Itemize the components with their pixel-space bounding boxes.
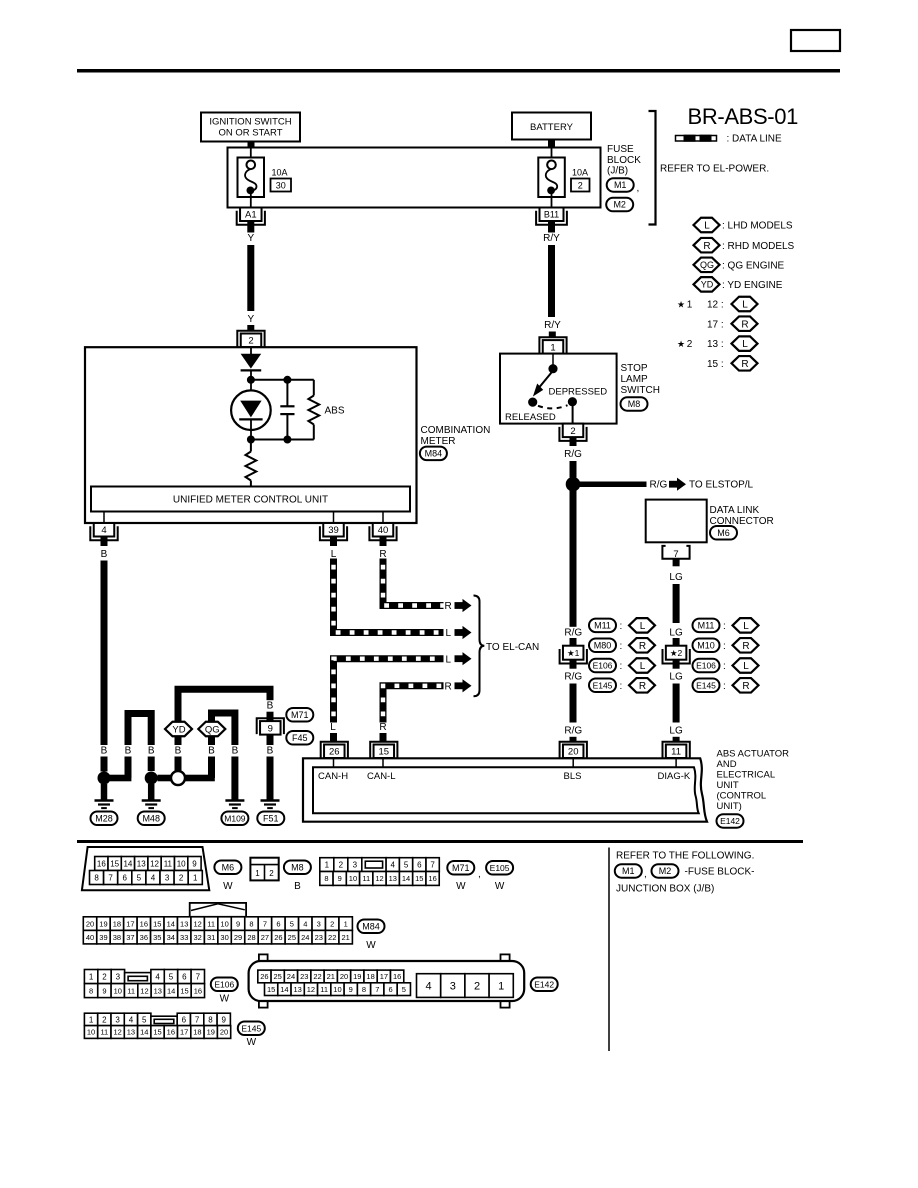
connector star2 <box>663 649 690 664</box>
svg-text:18: 18 <box>366 972 374 981</box>
connector E142 label <box>717 814 744 828</box>
svg-text:14: 14 <box>402 874 410 883</box>
svg-text:12: 12 <box>113 1028 121 1037</box>
ground wire M28 <box>101 784 108 800</box>
svg-text:1: 1 <box>498 981 504 993</box>
data line CAN-H from ABS pin 26 <box>334 659 444 723</box>
svg-text:35: 35 <box>153 933 161 942</box>
connector M8 pinout <box>250 858 278 881</box>
svg-text:9: 9 <box>268 723 273 734</box>
svg-text:LG: LG <box>669 572 683 583</box>
svg-text:17 :: 17 : <box>707 319 724 330</box>
wire R/G lower <box>570 684 577 723</box>
svg-text:24: 24 <box>301 933 309 942</box>
wire label B above junction <box>100 745 108 757</box>
svg-text:AND: AND <box>717 759 737 770</box>
svg-text:: RHD MODELS: : RHD MODELS <box>722 241 795 252</box>
node dot bottom <box>247 436 255 444</box>
ground M48 <box>142 799 161 802</box>
svg-text:6: 6 <box>182 972 187 981</box>
svg-text:19: 19 <box>353 972 361 981</box>
svg-text:METER: METER <box>421 436 456 447</box>
bottom rule <box>77 840 803 843</box>
svg-text:17: 17 <box>126 919 134 928</box>
svg-text:1: 1 <box>550 342 555 353</box>
combination meter box <box>85 347 417 523</box>
svg-text:L: L <box>743 661 749 672</box>
svg-text:1: 1 <box>325 860 330 869</box>
svg-text::: : <box>620 641 623 652</box>
svg-text:9: 9 <box>349 985 353 994</box>
svg-text:1: 1 <box>193 873 198 882</box>
wire label B loop right <box>147 745 155 757</box>
wire B from meter pin4 <box>101 561 108 772</box>
svg-text:10A: 10A <box>572 168 588 178</box>
junction dot M48 <box>145 772 158 785</box>
svg-text:R: R <box>741 359 748 370</box>
svg-text:8: 8 <box>362 985 366 994</box>
svg-text:B: B <box>267 746 274 757</box>
ABS actuator inner box <box>313 767 699 813</box>
svg-text:15: 15 <box>180 986 188 995</box>
arrow L row3 <box>446 652 472 665</box>
svg-text:UNIFIED METER CONTROL UNIT: UNIFIED METER CONTROL UNIT <box>173 495 328 506</box>
svg-text:R/Y: R/Y <box>543 233 560 244</box>
fuse2 number 2 <box>571 179 590 192</box>
engine option YD <box>165 722 192 737</box>
wire label B conn9 leg <box>266 700 274 712</box>
svg-text:BLOCK: BLOCK <box>607 155 641 166</box>
svg-text:M84: M84 <box>425 449 443 459</box>
svg-text:F45: F45 <box>292 733 308 743</box>
svg-text:BLS: BLS <box>564 771 582 782</box>
svg-text:12: 12 <box>140 986 148 995</box>
svg-text:SWITCH: SWITCH <box>621 385 660 396</box>
svg-text:: LHD MODELS: : LHD MODELS <box>722 221 793 232</box>
junction dot R/G <box>566 477 581 492</box>
svg-text:13: 13 <box>127 1028 135 1037</box>
svg-text:19: 19 <box>99 919 107 928</box>
svg-text:TO EL-CAN: TO EL-CAN <box>486 642 539 653</box>
meter pin line 4 <box>103 512 105 524</box>
svg-text:★1: ★1 <box>567 648 580 658</box>
wire stub above meter pin 2 <box>247 325 254 331</box>
svg-text:10: 10 <box>333 985 341 994</box>
wire battery to fuse block <box>548 140 555 149</box>
meter pin line 40 <box>382 512 384 524</box>
svg-text:E145: E145 <box>241 1023 261 1033</box>
svg-text:2: 2 <box>330 919 334 928</box>
svg-text:25: 25 <box>274 972 282 981</box>
switch contacts <box>528 354 577 424</box>
svg-text:15: 15 <box>153 919 161 928</box>
svg-text:2: 2 <box>179 873 184 882</box>
bottom section divider <box>608 848 610 1052</box>
svg-text:UNIT): UNIT) <box>717 801 742 812</box>
svg-text:34: 34 <box>167 933 175 942</box>
svg-text:W: W <box>220 993 230 1004</box>
svg-text:3: 3 <box>450 981 456 993</box>
wire Y <box>247 245 254 311</box>
connector M84 oval <box>358 920 385 951</box>
svg-text:M6: M6 <box>222 863 235 873</box>
svg-text:9: 9 <box>192 859 197 868</box>
svg-text:12: 12 <box>307 985 315 994</box>
svg-text:R: R <box>741 319 748 330</box>
combination meter label <box>421 425 491 447</box>
legend E145 R col2 <box>693 678 759 693</box>
legend LHD <box>694 218 793 233</box>
svg-text:25: 25 <box>288 933 296 942</box>
svg-text:15: 15 <box>153 1028 161 1037</box>
unified meter control unit box <box>91 487 410 512</box>
svg-text:20: 20 <box>220 1028 228 1037</box>
svg-text:7: 7 <box>195 1015 200 1024</box>
svg-text:: YD ENGINE: : YD ENGINE <box>722 280 783 291</box>
svg-text:LG: LG <box>669 627 683 638</box>
svg-text:M109: M109 <box>224 813 246 823</box>
connector E145 oval <box>238 1022 265 1049</box>
legend M11 L col2 <box>693 618 759 633</box>
svg-text:6: 6 <box>276 919 280 928</box>
svg-text:R: R <box>379 722 386 733</box>
svg-text:15: 15 <box>267 985 275 994</box>
svg-text:13: 13 <box>180 919 188 928</box>
wire stub below B11 <box>548 221 555 233</box>
svg-text:M10: M10 <box>697 641 715 651</box>
connector M84 <box>420 447 447 461</box>
svg-text:11: 11 <box>671 747 681 758</box>
wire ignition to fuse block <box>248 142 255 149</box>
wire LG upper <box>673 584 680 623</box>
svg-text:7: 7 <box>430 860 435 869</box>
svg-text:13 :: 13 : <box>707 339 724 350</box>
svg-text:16: 16 <box>393 972 401 981</box>
svg-text:W: W <box>223 881 233 892</box>
bracket for fuse block note <box>649 111 656 225</box>
svg-text:16: 16 <box>167 1028 175 1037</box>
svg-text:R/G: R/G <box>564 627 582 638</box>
svg-text:11: 11 <box>127 986 135 995</box>
ABS actuator label <box>717 749 790 813</box>
svg-text:B: B <box>101 746 108 757</box>
data line legend <box>676 134 783 145</box>
fuse block J/B box <box>228 148 601 208</box>
connector M48 <box>138 812 165 826</box>
svg-text:22: 22 <box>328 933 336 942</box>
svg-text:5: 5 <box>137 873 142 882</box>
svg-text:R: R <box>639 681 646 692</box>
connector M84 pinout <box>83 903 352 944</box>
data line CAN-L from ABS pin 15 <box>383 686 444 723</box>
legend star1 <box>677 297 758 312</box>
svg-text:B: B <box>148 746 155 757</box>
node dot cap top <box>283 376 291 384</box>
svg-text:28: 28 <box>247 933 255 942</box>
svg-text:30: 30 <box>220 933 228 942</box>
svg-text:14: 14 <box>123 859 132 868</box>
junction dot M28 <box>98 772 111 785</box>
svg-text:W: W <box>495 881 505 892</box>
svg-text:31: 31 <box>207 933 215 942</box>
wire label LG above star2 <box>669 627 683 639</box>
svg-text:32: 32 <box>193 933 201 942</box>
svg-text:30: 30 <box>276 181 286 191</box>
connector E145 pinout <box>84 1013 230 1038</box>
svg-text:18: 18 <box>113 919 121 928</box>
connector 2 switch <box>559 427 586 441</box>
svg-text:L: L <box>446 654 452 665</box>
connector 7 <box>662 546 689 560</box>
svg-text::: : <box>723 621 726 632</box>
connector M2 <box>606 198 633 212</box>
data line CAN-H from meter pin 39 <box>334 559 444 633</box>
svg-text:1: 1 <box>344 919 348 928</box>
wire YD loop <box>178 689 270 799</box>
svg-text:L: L <box>446 628 452 639</box>
connector 4 <box>90 526 117 540</box>
svg-text:1: 1 <box>89 972 94 981</box>
connector M109 <box>221 812 248 826</box>
svg-text:29: 29 <box>234 933 242 942</box>
wire label B QG left <box>207 745 215 757</box>
svg-text:FUSE: FUSE <box>607 144 634 155</box>
ground M109 <box>225 799 244 802</box>
svg-text:15: 15 <box>379 747 390 758</box>
svg-text:YD: YD <box>701 280 714 290</box>
svg-text:M2: M2 <box>659 866 672 876</box>
svg-text:(CONTROL: (CONTROL <box>717 791 767 802</box>
svg-text:: DATA LINE: : DATA LINE <box>727 134 783 145</box>
connector M28 <box>91 812 118 826</box>
ABS pin line 20 <box>572 758 574 768</box>
fuse 10A 2 <box>538 148 565 208</box>
svg-text:YD: YD <box>172 724 185 735</box>
svg-text:Y: Y <box>247 314 254 325</box>
svg-text:ON OR START: ON OR START <box>218 128 282 139</box>
svg-text:21: 21 <box>327 972 335 981</box>
wire loop B-B <box>128 714 151 779</box>
svg-text:7: 7 <box>263 919 267 928</box>
wire QG loop <box>212 713 235 800</box>
legend M10 R col2 <box>693 638 759 653</box>
svg-text:40: 40 <box>378 525 389 536</box>
svg-text:M48: M48 <box>142 814 160 824</box>
svg-text:2: 2 <box>339 860 344 869</box>
svg-text:3: 3 <box>353 860 358 869</box>
svg-text:RELEASED: RELEASED <box>505 412 556 423</box>
svg-text:11: 11 <box>320 985 328 994</box>
ground wire M48 <box>148 784 155 800</box>
svg-text:27: 27 <box>261 933 269 942</box>
svg-text:39: 39 <box>328 525 339 536</box>
svg-text:B: B <box>101 549 108 560</box>
connector E142 pinout <box>249 954 525 1007</box>
svg-text:8: 8 <box>89 986 93 995</box>
svg-text:JUNCTION BOX (J/B): JUNCTION BOX (J/B) <box>616 884 714 895</box>
svg-text:10: 10 <box>114 986 122 995</box>
wire LG lower <box>673 684 680 723</box>
svg-text:1: 1 <box>687 300 693 311</box>
brace TO EL-CAN <box>474 596 485 697</box>
svg-text:R/G: R/G <box>650 480 668 491</box>
wire R/G upper <box>570 461 577 478</box>
svg-text:LG: LG <box>669 672 683 683</box>
wire R/Y <box>548 245 555 317</box>
legend YD engine <box>694 277 783 292</box>
svg-text:R: R <box>445 681 452 692</box>
data line CAN-L from meter pin 40 <box>383 559 444 606</box>
fuse 10A 30 <box>238 148 265 208</box>
svg-text:3: 3 <box>317 919 321 928</box>
connector M71 side <box>286 708 313 722</box>
svg-text:QG: QG <box>700 260 714 270</box>
connector E105 oval <box>486 861 513 892</box>
connector M6 oval <box>214 861 241 892</box>
svg-text:M1: M1 <box>622 866 635 876</box>
svg-text:E106: E106 <box>593 661 613 671</box>
svg-text:10: 10 <box>349 874 357 883</box>
svg-text:B: B <box>267 701 274 712</box>
svg-text:3: 3 <box>165 873 170 882</box>
svg-text:23: 23 <box>315 933 323 942</box>
svg-text:6: 6 <box>123 873 128 882</box>
svg-text:20: 20 <box>568 747 579 758</box>
svg-text:DEPRESSED: DEPRESSED <box>549 387 608 398</box>
connector E106 pinout <box>84 970 204 998</box>
svg-text:R: R <box>639 641 646 652</box>
svg-text:37: 37 <box>126 933 134 942</box>
page number box <box>791 30 840 51</box>
svg-text:2: 2 <box>269 869 274 878</box>
svg-text:5: 5 <box>404 860 409 869</box>
svg-text:2: 2 <box>248 336 253 347</box>
svg-text:W: W <box>247 1037 257 1048</box>
svg-text:12 :: 12 : <box>707 300 724 311</box>
svg-text:E142: E142 <box>720 816 740 826</box>
wire bottom junction <box>251 439 314 441</box>
svg-text:2: 2 <box>102 1015 107 1024</box>
svg-text:A1: A1 <box>245 210 257 221</box>
wire stub above switch pin 1 <box>549 332 556 338</box>
svg-text:L: L <box>640 661 646 672</box>
svg-text:9: 9 <box>102 986 106 995</box>
svg-text:B: B <box>175 746 182 757</box>
svg-text:2: 2 <box>102 972 107 981</box>
fuse block label <box>607 144 641 177</box>
svg-text:M6: M6 <box>717 528 730 538</box>
connector M1 note <box>615 864 647 880</box>
stop lamp switch box <box>500 354 617 424</box>
svg-text:E142: E142 <box>534 979 554 989</box>
ground M28 <box>95 799 114 802</box>
svg-text:L: L <box>640 621 646 632</box>
svg-text:CAN-H: CAN-H <box>318 771 348 782</box>
svg-text:DATA LINK: DATA LINK <box>710 505 760 516</box>
connector M8 oval <box>284 861 311 892</box>
wire dot to open circle <box>158 775 171 782</box>
svg-text:4: 4 <box>426 981 432 993</box>
svg-text::: : <box>620 621 623 632</box>
svg-text:14: 14 <box>167 986 175 995</box>
svg-text:15: 15 <box>110 859 119 868</box>
fuse1 number 30 <box>271 179 292 192</box>
svg-text:STOP: STOP <box>621 363 648 374</box>
svg-text:W: W <box>456 881 466 892</box>
svg-text:11: 11 <box>207 919 215 928</box>
svg-text:★: ★ <box>677 339 685 349</box>
svg-text:16: 16 <box>194 986 202 995</box>
connector M71 oval <box>447 861 480 892</box>
ground F51 <box>261 799 280 802</box>
svg-text:4: 4 <box>155 972 160 981</box>
svg-text:3: 3 <box>115 1015 120 1024</box>
resistor R2 <box>246 443 257 487</box>
svg-text:7: 7 <box>108 873 113 882</box>
svg-text:★2: ★2 <box>670 648 683 658</box>
svg-text:9: 9 <box>222 1015 227 1024</box>
svg-text:23: 23 <box>300 972 308 981</box>
svg-text:10A: 10A <box>272 168 288 178</box>
legend E145 R col1 <box>589 678 655 693</box>
svg-text:M28: M28 <box>95 814 113 824</box>
svg-text:14: 14 <box>280 985 288 994</box>
legend M11 L col1 <box>589 618 655 633</box>
data link connector box <box>646 500 707 543</box>
arrow R row4 <box>445 679 472 692</box>
svg-text:6: 6 <box>388 985 392 994</box>
connector M2 note <box>652 864 755 878</box>
svg-text:R/G: R/G <box>564 726 582 737</box>
svg-text:4: 4 <box>303 919 307 928</box>
wire top junction <box>251 379 314 381</box>
svg-text:QG: QG <box>205 724 220 735</box>
svg-text:R: R <box>742 641 749 652</box>
wire label R/G above star1 <box>563 627 584 639</box>
svg-text:L: L <box>742 339 748 350</box>
ABS pin line 11 <box>675 758 677 768</box>
svg-text:38: 38 <box>113 933 121 942</box>
svg-text:12: 12 <box>150 859 159 868</box>
svg-text:14: 14 <box>167 919 175 928</box>
svg-text:6: 6 <box>417 860 422 869</box>
connector M71 pinout <box>320 858 440 886</box>
svg-text:8: 8 <box>324 874 328 883</box>
connector 20 ABS <box>560 742 587 758</box>
resistor ABS <box>308 380 319 440</box>
svg-text:36: 36 <box>140 933 148 942</box>
arrow R row1 <box>445 599 472 612</box>
capacitor C1 <box>280 380 294 440</box>
svg-text::: : <box>620 661 623 672</box>
wire R/G to star1 <box>570 491 577 629</box>
svg-text:M71: M71 <box>452 863 470 873</box>
svg-text:E145: E145 <box>593 680 613 690</box>
svg-text:M11: M11 <box>594 621 611 631</box>
svg-text:: QG ENGINE: : QG ENGINE <box>722 260 785 271</box>
connector 40 <box>369 526 396 540</box>
connector E106 oval <box>211 978 238 1005</box>
svg-text:16: 16 <box>428 874 436 883</box>
svg-text:22: 22 <box>313 972 321 981</box>
svg-text:9: 9 <box>338 874 342 883</box>
svg-text:6: 6 <box>182 1015 187 1024</box>
connector 39 <box>320 526 347 540</box>
svg-text:R: R <box>742 681 749 692</box>
node dot cap bottom <box>283 436 291 444</box>
svg-text:2: 2 <box>570 426 575 437</box>
svg-text:2: 2 <box>687 339 693 350</box>
